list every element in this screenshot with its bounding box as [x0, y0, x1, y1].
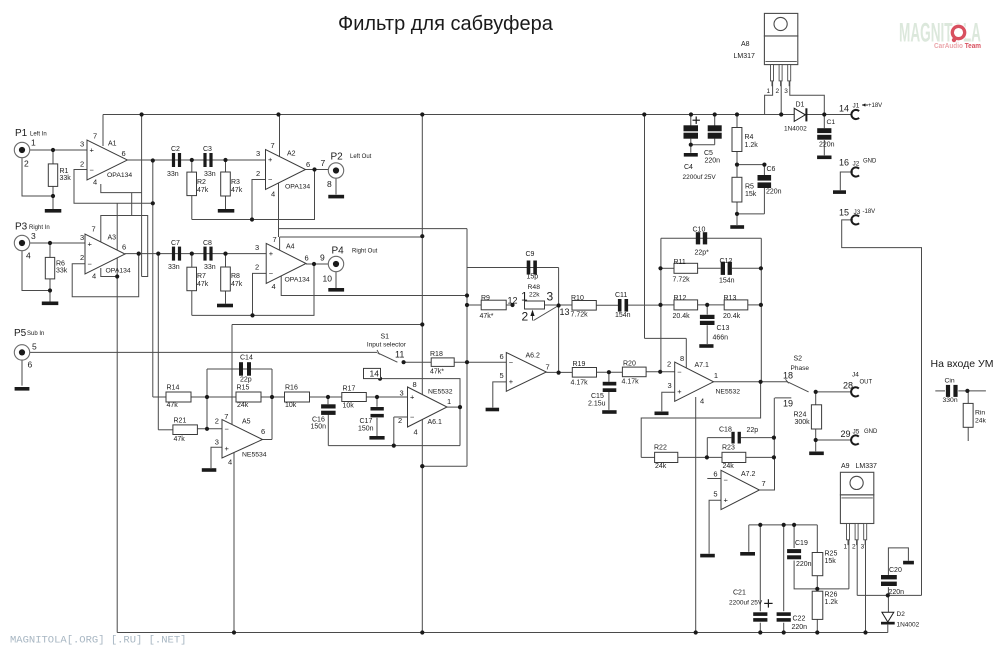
svg-text:R11: R11 — [674, 259, 686, 266]
svg-text:2: 2 — [398, 416, 402, 425]
svg-text:MAGNITOLA[.ORG] [.RU] [.NET]: MAGNITOLA[.ORG] [.RU] [.NET] — [10, 635, 186, 647]
svg-text:R8: R8 — [231, 273, 240, 280]
svg-text:Rin: Rin — [975, 410, 985, 417]
svg-text:A4: A4 — [286, 244, 295, 251]
svg-text:24k: 24k — [655, 463, 667, 470]
svg-text:J1: J1 — [853, 103, 860, 110]
svg-text:2: 2 — [522, 310, 529, 324]
svg-text:466n: 466n — [713, 335, 729, 342]
svg-text:NE5532: NE5532 — [716, 389, 741, 396]
svg-text:154n: 154n — [719, 278, 735, 285]
svg-text:+: + — [410, 393, 415, 402]
svg-text:24k: 24k — [237, 402, 249, 409]
svg-text:S1: S1 — [381, 334, 390, 341]
svg-text:A6.1: A6.1 — [428, 419, 443, 426]
svg-text:33n: 33n — [167, 171, 179, 178]
svg-text:A3: A3 — [108, 235, 117, 242]
svg-text:15k: 15k — [825, 558, 837, 565]
svg-text:3: 3 — [547, 290, 554, 304]
svg-text:P5: P5 — [14, 328, 27, 339]
svg-text:−: − — [269, 269, 274, 278]
svg-text:220n: 220n — [705, 158, 721, 165]
svg-text:+: + — [268, 155, 273, 164]
svg-text:4.17k: 4.17k — [622, 379, 640, 386]
svg-text:33k: 33k — [60, 175, 72, 182]
svg-text:+: + — [677, 387, 682, 396]
svg-text:Phase: Phase — [791, 365, 810, 372]
svg-text:C14: C14 — [240, 355, 253, 362]
svg-text:C21: C21 — [733, 590, 746, 597]
svg-text:A7.1: A7.1 — [695, 362, 710, 369]
svg-text:7: 7 — [762, 479, 766, 488]
svg-text:D1: D1 — [796, 102, 805, 109]
svg-text:3: 3 — [256, 149, 260, 158]
svg-text:18: 18 — [783, 371, 793, 381]
svg-text:24k: 24k — [723, 463, 735, 470]
svg-text:Cin: Cin — [945, 378, 955, 385]
svg-text:R15: R15 — [237, 385, 250, 392]
svg-text:+: + — [225, 444, 230, 453]
svg-text:47k: 47k — [231, 187, 243, 194]
svg-text:2: 2 — [80, 160, 84, 169]
svg-text:4: 4 — [228, 458, 232, 467]
svg-text:C7: C7 — [171, 240, 180, 247]
svg-text:3: 3 — [215, 437, 219, 446]
svg-text:OUT: OUT — [860, 380, 873, 386]
svg-text:+: + — [724, 495, 729, 504]
svg-text:330n: 330n — [943, 397, 958, 404]
svg-text:J5: J5 — [853, 429, 860, 436]
svg-text:−: − — [724, 476, 729, 485]
svg-text:2: 2 — [24, 159, 29, 169]
svg-text:5: 5 — [713, 490, 717, 499]
svg-text:2.15u: 2.15u — [588, 401, 606, 408]
svg-text:Input selector: Input selector — [367, 342, 407, 349]
svg-text:24k: 24k — [975, 418, 987, 425]
svg-text:1.2k: 1.2k — [745, 142, 759, 149]
svg-text:J3: J3 — [854, 209, 861, 216]
svg-text:C3: C3 — [203, 146, 212, 153]
svg-text:CarAudio Team: CarAudio Team — [934, 41, 981, 50]
svg-text:1: 1 — [521, 290, 528, 304]
svg-text:10k: 10k — [343, 403, 355, 410]
svg-text:4: 4 — [414, 428, 418, 437]
svg-text:14: 14 — [839, 104, 849, 114]
svg-text:2: 2 — [667, 360, 671, 369]
svg-text:7.72k: 7.72k — [571, 312, 589, 319]
svg-text:R9: R9 — [481, 295, 490, 302]
svg-text:OPA134: OPA134 — [285, 277, 310, 284]
svg-text:6: 6 — [500, 352, 504, 361]
svg-text:12: 12 — [508, 296, 518, 306]
svg-text:1N4002: 1N4002 — [897, 622, 920, 629]
svg-text:C9: C9 — [526, 251, 535, 258]
svg-text:R25: R25 — [825, 551, 838, 558]
svg-text:R20: R20 — [623, 361, 636, 368]
svg-text:Фильтр для сабвуфера: Фильтр для сабвуфера — [338, 13, 554, 35]
svg-text:R21: R21 — [174, 418, 187, 425]
svg-text:A7.2: A7.2 — [741, 471, 756, 478]
svg-text:47k: 47k — [231, 281, 243, 288]
svg-text:C6: C6 — [767, 166, 776, 173]
svg-text:220n: 220n — [766, 189, 782, 196]
svg-text:R6: R6 — [56, 261, 65, 268]
svg-text:47k: 47k — [167, 402, 179, 409]
svg-text:R2: R2 — [197, 179, 206, 186]
svg-text:−: − — [410, 413, 415, 422]
svg-text:1: 1 — [844, 544, 848, 551]
svg-text:6: 6 — [713, 470, 717, 479]
svg-text:220n: 220n — [792, 624, 808, 631]
svg-text:OPA134: OPA134 — [106, 268, 131, 275]
svg-text:6: 6 — [122, 149, 126, 158]
svg-text:2: 2 — [852, 544, 856, 551]
svg-text:NE5534: NE5534 — [242, 452, 267, 459]
svg-text:6: 6 — [122, 243, 126, 252]
svg-text:14: 14 — [370, 369, 380, 379]
svg-text:19: 19 — [783, 399, 793, 409]
svg-text:J4: J4 — [852, 372, 859, 379]
svg-text:22p: 22p — [747, 427, 759, 434]
svg-text:3: 3 — [255, 243, 259, 252]
svg-text:R17: R17 — [343, 386, 356, 393]
svg-text:A5: A5 — [242, 419, 251, 426]
svg-text:+: + — [90, 146, 95, 155]
svg-text:C17: C17 — [360, 418, 373, 425]
svg-text:+18V: +18V — [868, 103, 882, 109]
svg-text:C13: C13 — [717, 325, 730, 332]
svg-text:7: 7 — [273, 235, 277, 244]
svg-text:C22: C22 — [793, 616, 806, 623]
svg-text:7: 7 — [321, 158, 326, 168]
svg-text:20.4k: 20.4k — [723, 313, 741, 320]
svg-text:2: 2 — [215, 417, 219, 426]
svg-text:16: 16 — [839, 158, 849, 168]
svg-text:−: − — [677, 368, 682, 377]
svg-text:7: 7 — [92, 225, 96, 234]
svg-text:R22: R22 — [654, 445, 667, 452]
svg-text:10k: 10k — [285, 402, 297, 409]
svg-text:D2: D2 — [897, 611, 906, 618]
svg-text:R48: R48 — [528, 284, 541, 291]
svg-text:33n: 33n — [168, 264, 180, 271]
svg-text:+: + — [269, 249, 274, 258]
svg-text:6: 6 — [261, 427, 265, 436]
svg-text:47k*: 47k* — [430, 369, 444, 376]
svg-text:20.4k: 20.4k — [673, 313, 691, 320]
svg-text:33n: 33n — [204, 171, 216, 178]
svg-text:150n: 150n — [358, 426, 374, 433]
svg-text:+: + — [88, 240, 93, 249]
svg-text:1.2k: 1.2k — [825, 599, 839, 606]
svg-text:P1: P1 — [15, 128, 28, 139]
svg-text:Sub In: Sub In — [27, 331, 44, 337]
svg-text:C16: C16 — [312, 417, 325, 424]
svg-text:На входе УМ: На входе УМ — [931, 358, 994, 370]
svg-text:1: 1 — [447, 397, 451, 406]
svg-text:C8: C8 — [203, 240, 212, 247]
svg-text:7: 7 — [224, 412, 228, 421]
svg-text:C10: C10 — [693, 227, 706, 234]
svg-text:28: 28 — [843, 381, 853, 391]
svg-text:P2: P2 — [331, 152, 344, 163]
svg-text:5: 5 — [32, 342, 37, 352]
svg-text:C19: C19 — [795, 540, 808, 547]
svg-text:LM317: LM317 — [734, 53, 756, 60]
svg-text:-18V: -18V — [863, 209, 876, 215]
svg-text:P4: P4 — [332, 246, 345, 257]
svg-text:300k: 300k — [795, 419, 811, 426]
svg-text:2: 2 — [255, 263, 259, 272]
svg-text:22p*: 22p* — [695, 250, 710, 257]
svg-text:A6.2: A6.2 — [526, 353, 541, 360]
svg-text:OPA134: OPA134 — [107, 172, 132, 179]
svg-text:C1: C1 — [827, 119, 836, 126]
svg-text:1: 1 — [31, 138, 36, 148]
svg-text:P3: P3 — [15, 222, 28, 233]
svg-text:8: 8 — [327, 179, 332, 189]
svg-text:4: 4 — [700, 397, 704, 406]
svg-text:A9: A9 — [841, 463, 850, 470]
svg-text:15: 15 — [839, 208, 849, 218]
svg-text:5: 5 — [500, 371, 504, 380]
svg-text:−: − — [225, 425, 230, 434]
svg-text:3: 3 — [400, 389, 404, 398]
svg-text:11: 11 — [395, 350, 404, 360]
svg-text:3: 3 — [31, 231, 36, 241]
svg-text:8: 8 — [680, 354, 684, 363]
svg-text:6: 6 — [306, 160, 310, 169]
svg-text:4.17k: 4.17k — [571, 379, 589, 386]
svg-text:Left Out: Left Out — [350, 154, 372, 160]
svg-text:R26: R26 — [825, 592, 838, 599]
svg-text:−: − — [268, 175, 273, 184]
svg-text:−: − — [90, 166, 95, 175]
svg-text:3: 3 — [80, 140, 84, 149]
svg-text:R23: R23 — [722, 445, 735, 452]
svg-text:22p: 22p — [240, 377, 252, 384]
svg-text:220n: 220n — [796, 561, 812, 568]
svg-text:R10: R10 — [571, 295, 584, 302]
svg-text:C15: C15 — [591, 393, 604, 400]
svg-text:R19: R19 — [573, 361, 586, 368]
svg-text:Right Out: Right Out — [352, 249, 378, 255]
svg-text:2: 2 — [256, 169, 260, 178]
svg-text:8: 8 — [413, 380, 417, 389]
svg-text:13: 13 — [560, 307, 570, 317]
svg-text:R1: R1 — [60, 168, 69, 175]
svg-text:GND: GND — [863, 159, 877, 165]
svg-text:R13: R13 — [724, 295, 737, 302]
svg-text:47k: 47k — [174, 436, 186, 443]
svg-text:R16: R16 — [285, 385, 298, 392]
svg-text:C2: C2 — [171, 146, 180, 153]
svg-text:LM337: LM337 — [856, 463, 878, 470]
svg-text:2: 2 — [776, 88, 780, 95]
svg-text:2: 2 — [80, 253, 84, 262]
svg-text:4: 4 — [26, 251, 31, 261]
svg-text:6: 6 — [305, 254, 309, 263]
svg-text:154n: 154n — [615, 312, 631, 319]
svg-text:R14: R14 — [167, 385, 180, 392]
svg-text:7.72k: 7.72k — [673, 277, 691, 284]
svg-text:1: 1 — [767, 88, 771, 95]
svg-text:7: 7 — [93, 132, 97, 141]
svg-text:22k: 22k — [529, 292, 540, 299]
svg-text:C5: C5 — [704, 150, 713, 157]
svg-text:2200uf 25V: 2200uf 25V — [729, 600, 763, 607]
svg-text:47k*: 47k* — [480, 313, 494, 320]
svg-text:−: − — [509, 358, 514, 367]
svg-text:220n: 220n — [889, 589, 905, 596]
svg-text:4: 4 — [271, 190, 275, 199]
svg-text:S2: S2 — [794, 356, 803, 363]
svg-text:GND: GND — [864, 429, 878, 435]
svg-text:33n: 33n — [204, 264, 216, 271]
svg-text:A8: A8 — [741, 41, 750, 48]
svg-text:C4: C4 — [684, 164, 693, 171]
svg-text:OPA134: OPA134 — [285, 184, 310, 191]
svg-text:R12: R12 — [674, 295, 687, 302]
svg-text:220n: 220n — [819, 142, 835, 149]
svg-text:3: 3 — [80, 233, 84, 242]
svg-text:10: 10 — [323, 274, 333, 284]
svg-text:33k: 33k — [56, 268, 68, 275]
svg-text:2200uf 25V: 2200uf 25V — [683, 174, 717, 181]
svg-text:C18: C18 — [719, 426, 732, 433]
svg-text:15k: 15k — [745, 191, 757, 198]
svg-text:C11: C11 — [615, 292, 627, 299]
svg-text:J2: J2 — [853, 161, 860, 168]
svg-text:C12: C12 — [720, 258, 733, 265]
svg-text:A1: A1 — [108, 141, 117, 148]
svg-text:47k: 47k — [197, 281, 209, 288]
svg-text:R5: R5 — [745, 184, 754, 191]
svg-text:A2: A2 — [287, 151, 296, 158]
svg-text:4: 4 — [93, 178, 97, 187]
svg-text:−: − — [88, 260, 93, 269]
svg-text:R7: R7 — [197, 273, 206, 280]
svg-text:47k: 47k — [197, 187, 209, 194]
svg-text:+: + — [509, 377, 514, 386]
svg-text:4: 4 — [92, 272, 96, 281]
svg-text:3: 3 — [784, 88, 788, 95]
svg-text:150n: 150n — [311, 424, 327, 431]
svg-text:7: 7 — [271, 141, 275, 150]
svg-text:C20: C20 — [889, 567, 902, 574]
svg-text:9: 9 — [320, 253, 325, 263]
svg-text:1: 1 — [714, 371, 718, 380]
svg-text:3: 3 — [861, 544, 865, 551]
svg-text:3: 3 — [668, 381, 672, 390]
svg-text:7: 7 — [546, 363, 550, 372]
svg-text:4: 4 — [272, 282, 276, 291]
svg-text:6: 6 — [28, 360, 33, 370]
svg-text:NE5532: NE5532 — [428, 389, 453, 396]
svg-text:R4: R4 — [745, 134, 754, 141]
svg-text:29: 29 — [841, 429, 851, 439]
svg-text:1N4002: 1N4002 — [784, 126, 807, 133]
svg-text:R24: R24 — [794, 412, 807, 419]
svg-text:R3: R3 — [231, 179, 240, 186]
svg-text:R18: R18 — [430, 351, 443, 358]
svg-text:15p: 15p — [527, 274, 539, 281]
